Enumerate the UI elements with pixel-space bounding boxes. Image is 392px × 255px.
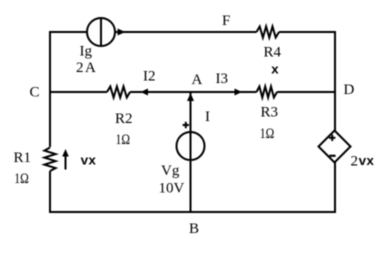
svg-text:Ig: Ig [80,44,93,60]
wire middle rail A to R3 [190,91,257,93]
plus sign of dependent source [329,135,335,141]
wire middle rail C to R2 [50,91,107,93]
voltage arrow vx [62,149,69,170]
resistor R4 [257,27,280,38]
svg-text:1Ω: 1Ω [260,126,275,142]
resistor R3 [257,87,278,98]
svg-text:R3: R3 [261,105,279,121]
svg-text:A: A [192,72,203,88]
svg-text:1Ω: 1Ω [116,132,131,148]
wire through Vg [190,132,192,160]
node F [222,13,230,29]
label 2vx [351,154,375,170]
wire top rail right segment [279,31,336,33]
node D [344,82,355,98]
value 1&#937; (R2) [116,132,131,148]
svg-text:Vg: Vg [161,163,180,179]
wire left rail lower [49,171,51,213]
svg-text:I: I [205,109,210,125]
svg-text:vx: vx [359,154,375,169]
wire left rail upper [49,31,51,147]
svg-text:F: F [222,13,230,29]
svg-text:B: B [189,221,199,237]
node B [189,221,199,237]
svg-text:2: 2 [351,154,359,170]
resistor R2 [107,87,130,98]
label R2 [115,111,133,127]
label Ig [80,44,93,60]
wire right rail lower [334,163,336,214]
current arrow I [187,93,194,101]
svg-text:vx: vx [81,154,97,169]
label I2 [143,69,156,85]
wire middle branch A to B [190,92,192,212]
current arrow of source Ig [118,29,126,36]
value 1&#937; (R1) [14,171,28,187]
svg-text:D: D [344,82,355,98]
wire top rail left segment [50,31,88,33]
node A [192,72,203,88]
svg-text:I3: I3 [216,71,229,87]
resistor R1 [44,148,55,172]
wire right rail upper [334,31,336,131]
svg-text:C: C [30,85,40,101]
label R4 [264,45,282,61]
current arrow I3 [235,89,243,96]
label Vg [161,163,180,179]
svg-text:2A: 2A [76,60,97,76]
svg-text:R1: R1 [14,150,32,166]
svg-text:1Ω: 1Ω [14,171,28,187]
dependent source 2vx diamond [319,131,351,163]
svg-text:I2: I2 [143,69,156,85]
label vx [81,154,97,169]
minus sign of dependent source [329,155,335,157]
label I [205,109,210,125]
current arrow I2 [141,89,149,96]
svg-text:x: x [271,63,279,78]
plus sign of Vg [183,122,189,128]
wire middle rail R3 to D [277,91,336,93]
label R3 [261,105,279,121]
value x [271,63,279,78]
value 10V [159,181,185,197]
wire top rail middle segment [115,31,257,33]
svg-text:R4: R4 [264,45,282,61]
label I3 [216,71,229,87]
current source Ig [87,18,115,46]
svg-text:10V: 10V [159,181,185,197]
node C [30,85,40,101]
voltage source Vg [177,132,205,160]
label R1 [14,150,32,166]
value 2A [76,60,97,76]
value 1&#937; (R3) [260,126,275,142]
svg-text:R2: R2 [115,111,133,127]
wire middle rail R2 to A [130,91,190,93]
wire bottom rail [49,211,336,213]
